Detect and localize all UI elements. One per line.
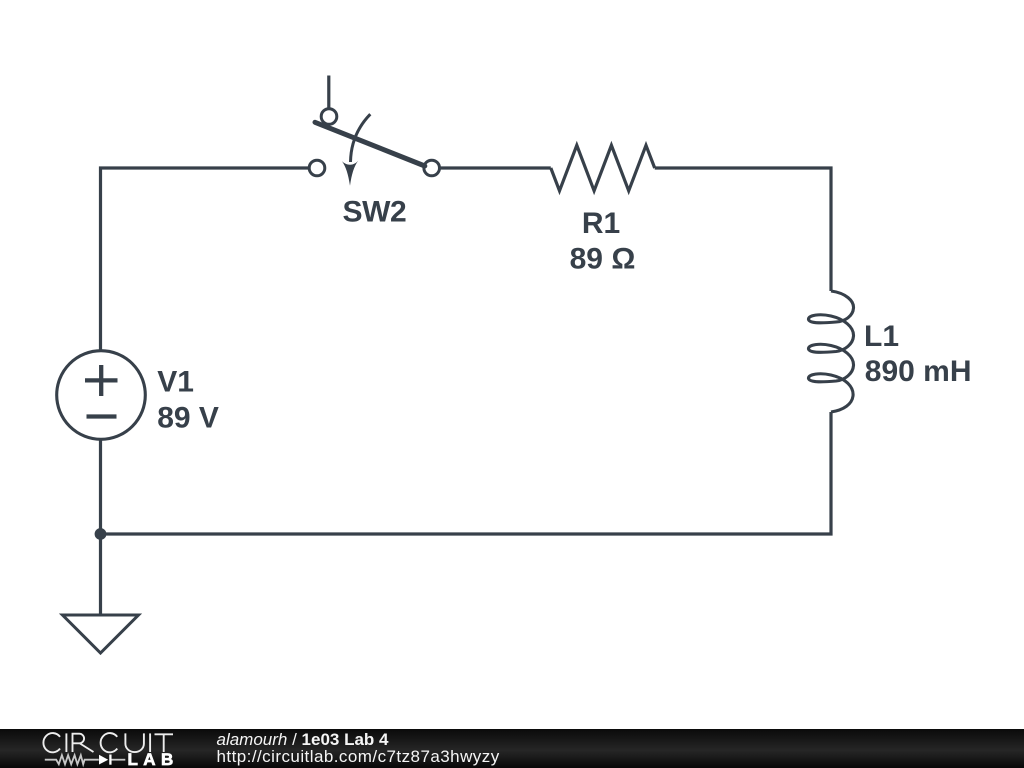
SW2 action arrow [351, 114, 371, 162]
logo diode [99, 755, 108, 765]
wire: R1 right to top-right corner down to L1 top [655, 168, 831, 291]
wire: SW2 right terminal to R1 left [441, 166, 551, 169]
node junction dot [95, 528, 107, 540]
V1 minus sign [87, 414, 117, 418]
svg-text:89 V: 89 V [157, 401, 219, 434]
V1 plus sign [85, 365, 118, 396]
resistor R1 [551, 145, 655, 191]
svg-text:R1: R1 [582, 207, 620, 240]
inductor L1 [808, 291, 853, 412]
ground [63, 615, 139, 653]
SW2 lever [315, 122, 425, 166]
logo wire + resistor squiggle [45, 755, 99, 764]
svg-text:V1: V1 [157, 366, 194, 399]
svg-text:L1: L1 [864, 320, 899, 353]
svg-text:alamourh / 1e03 Lab 4: alamourh / 1e03 Lab 4 [217, 730, 390, 749]
wire left: V1 top up to top-left corner and across to SW2 left terminal [101, 168, 309, 351]
wire: L1 bottom down to bottom-right corner and across to junction [101, 412, 832, 534]
svg-text:89 Ω: 89 Ω [570, 243, 636, 276]
svg-text:LAB: LAB [128, 750, 179, 768]
svg-text:http://circuitlab.com/c7tz87a3: http://circuitlab.com/c7tz87a3hwyzy [217, 747, 500, 766]
SW2 right terminal [424, 160, 440, 176]
SW2 top terminal [321, 109, 337, 125]
CircuitLab logo CIRCUIT (thin stroked glyphs) [43, 733, 173, 752]
SW2 left terminal [309, 160, 325, 176]
svg-text:SW2: SW2 [342, 196, 406, 229]
wire: V1 bottom down to junction [99, 440, 102, 535]
svg-text:890 mH: 890 mH [865, 355, 972, 388]
voltage source V1 [57, 351, 146, 440]
wire: SW2 top stub [327, 76, 330, 109]
wire: junction down to ground [99, 534, 102, 615]
